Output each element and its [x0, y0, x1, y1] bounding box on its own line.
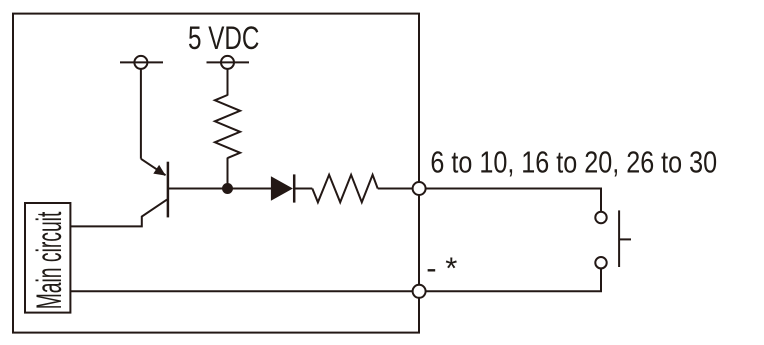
- svg-text:6 to 10, 16 to 20, 26 to 30: 6 to 10, 16 to 20, 26 to 30: [430, 144, 717, 179]
- resistor series (horizontal): [312, 175, 377, 203]
- terminal output (6 to 10): [413, 182, 426, 195]
- svg-text:- *: - *: [426, 250, 457, 285]
- outer device box: [13, 14, 419, 333]
- svg-text:5 VDC: 5 VDC: [188, 20, 259, 56]
- wire main circuit to minus terminal: [70, 290, 419, 292]
- svg-text:Main circuit: Main circuit: [29, 212, 69, 310]
- wire diode to resistor: [294, 188, 312, 190]
- diode D: [271, 174, 294, 202]
- terminal 5VDC: [207, 56, 250, 69]
- transistor Q1 (PNP): [141, 159, 168, 218]
- junction dot: [222, 183, 233, 194]
- wire 5VDC to resistor: [227, 69, 229, 95]
- resistor R pull-up (vertical): [215, 95, 240, 158]
- wire resistor to junction: [227, 158, 229, 189]
- wire base: [169, 188, 272, 190]
- wire output to switch: [419, 189, 601, 212]
- pushbutton switch SW: [595, 210, 631, 268]
- wire collector to main circuit: [70, 200, 167, 227]
- Main circuit box: [25, 203, 70, 313]
- wire resistor to output terminal: [378, 188, 419, 190]
- terminal minus: [413, 285, 426, 298]
- wire switch to minus terminal: [419, 269, 601, 292]
- wire emitter vertical: [140, 69, 142, 159]
- terminal left supply: [120, 56, 163, 69]
